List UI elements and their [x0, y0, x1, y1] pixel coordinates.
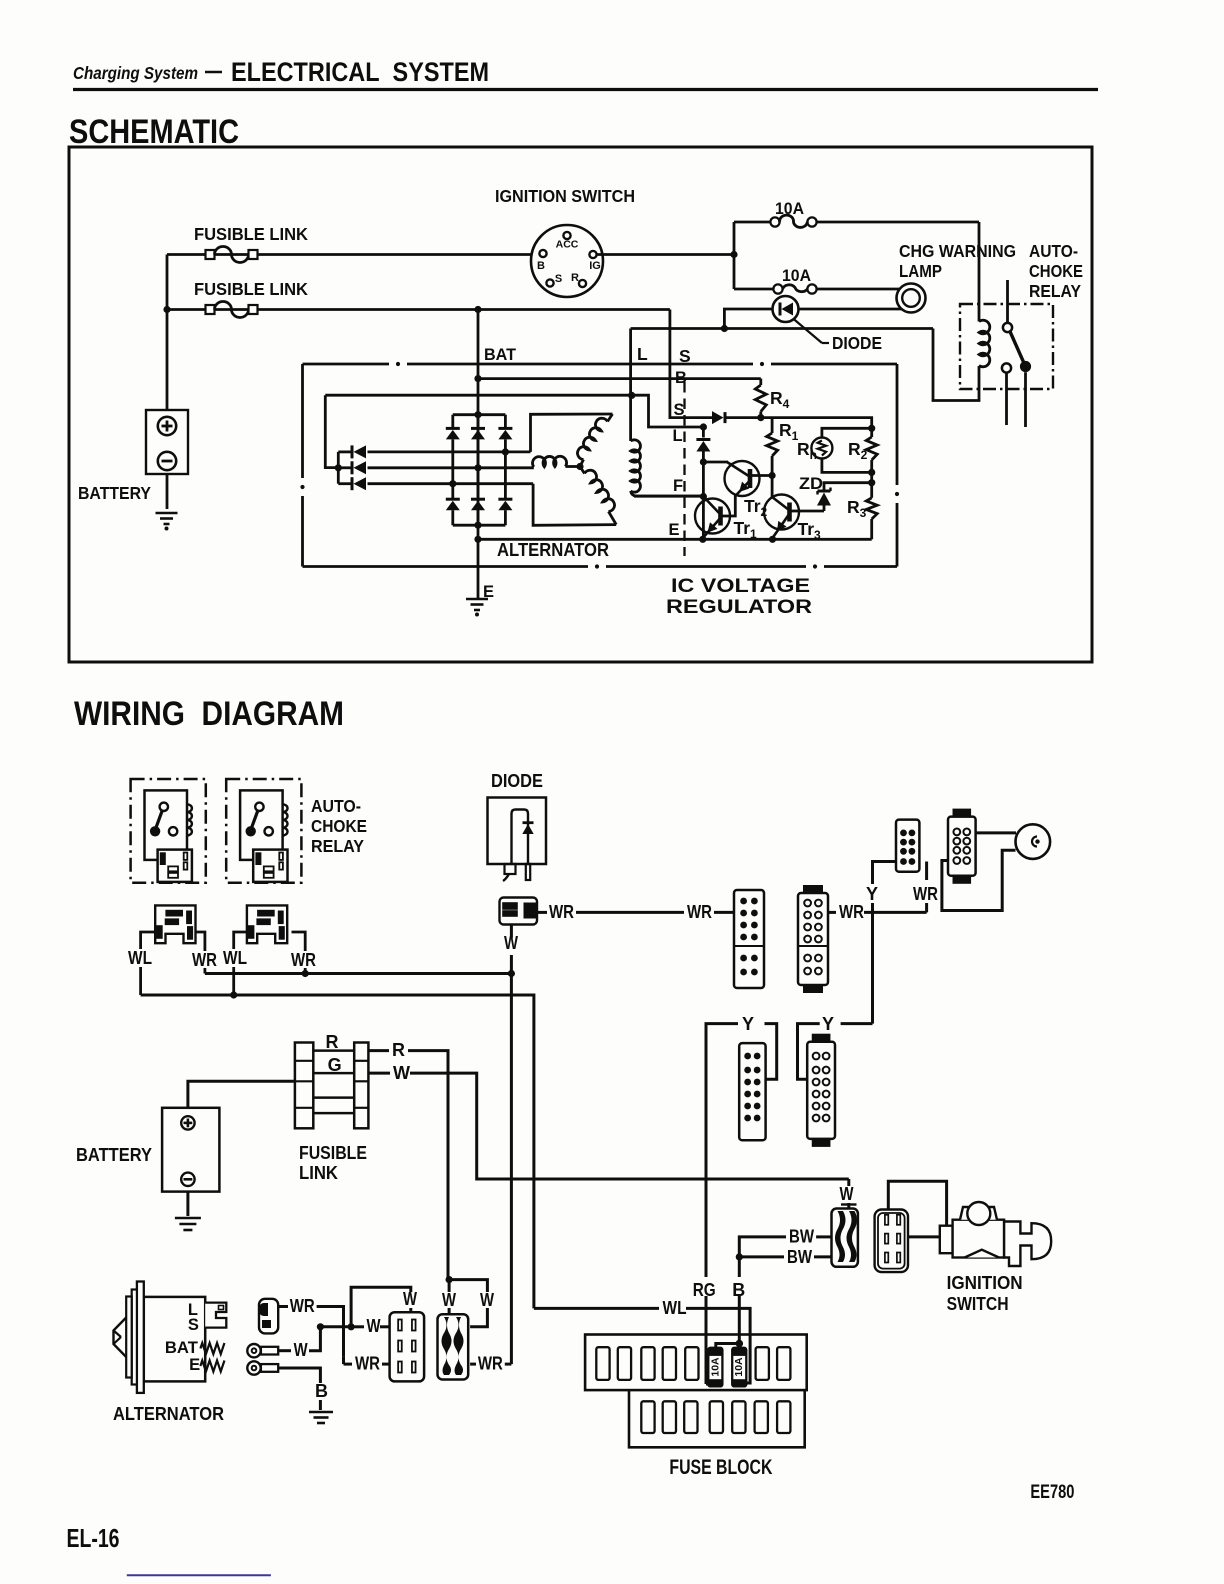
connector C: [896, 820, 919, 872]
node W join2: [348, 1323, 355, 1330]
svg-text:10A: 10A: [733, 1357, 745, 1377]
svg-text:IG: IG: [589, 260, 601, 272]
svg-text:WR: WR: [291, 950, 316, 970]
node L junction: [700, 423, 707, 430]
wire battery positive: [166, 255, 169, 411]
wire to fuse2: [734, 288, 773, 291]
wire W out: [368, 1072, 390, 1075]
ground alternator E: [466, 598, 488, 601]
phase line U: [368, 450, 531, 453]
wire W to 6pin: [351, 1325, 364, 1328]
node Tr2 base: [700, 458, 707, 465]
alternator body wiring: [144, 1297, 205, 1382]
zener ZD: [818, 490, 831, 493]
transistor Tr3: [764, 495, 799, 530]
svg-text:ZD: ZD: [799, 474, 823, 493]
ring terminal 2: [247, 1361, 260, 1374]
node bridge top: [474, 411, 481, 418]
svg-text:FUSE BLOCK: FUSE BLOCK: [669, 1455, 772, 1479]
connector 4pin: [438, 1314, 469, 1379]
svg-text:L: L: [637, 344, 648, 364]
connector B: [798, 893, 828, 985]
svg-text:FUSIBLE: FUSIBLE: [299, 1143, 367, 1163]
wire Tr2 emitter to Tr1 base: [721, 495, 735, 516]
resistor R2: [870, 428, 873, 437]
wire W main down: [510, 974, 513, 1061]
wire W node link: [320, 1325, 351, 1328]
node WL conn2: [230, 991, 237, 998]
wire W2 fusible feed: [167, 308, 670, 311]
wire ring2 B: [278, 1368, 320, 1383]
ground battery wiring: [175, 1217, 201, 1220]
svg-text:LAMP: LAMP: [899, 261, 942, 281]
wire diode left: [724, 309, 772, 329]
bridge diode column 3: [504, 415, 507, 429]
svg-text:WL: WL: [663, 1298, 687, 1318]
svg-text:WR: WR: [549, 902, 574, 922]
svg-text:B: B: [315, 1381, 328, 1401]
diode D1: [773, 296, 799, 322]
bridge diode column 2: [477, 415, 480, 429]
connector Y2: [807, 1042, 835, 1139]
wire R out: [368, 1049, 389, 1052]
lamp bulb: [1016, 824, 1051, 859]
node stator Y center: [576, 463, 583, 470]
wire conn1 WR leg: [196, 932, 205, 951]
wire WL bus: [141, 995, 534, 1060]
node phase U: [502, 448, 509, 455]
relay box K1: [960, 304, 1053, 389]
wire battery negative: [166, 474, 169, 509]
wire W into 4pin left: [448, 1280, 451, 1292]
alternator spring E: [200, 1361, 224, 1372]
svg-text:BW: BW: [789, 1227, 814, 1247]
wire conn1 WL leg: [141, 932, 156, 949]
wire WL down: [532, 1060, 535, 1308]
wire fuse2 to lamp: [817, 288, 900, 291]
phase line W: [368, 482, 534, 485]
relay contact moving: [1020, 361, 1031, 372]
wire WR bus: [205, 972, 512, 975]
svg-text:WR: WR: [687, 902, 712, 922]
svg-text:IC VOLTAGE: IC VOLTAGE: [671, 576, 810, 597]
wire R2-R3 link: [870, 472, 873, 497]
wire ZD top: [824, 483, 872, 490]
svg-text:B: B: [732, 1280, 745, 1300]
wire Y1 link: [765, 1024, 777, 1080]
header rule: [73, 88, 1098, 91]
svg-text:10A: 10A: [709, 1357, 721, 1377]
svg-text:SWITCH: SWITCH: [947, 1294, 1009, 1314]
diode box wiring: [488, 798, 547, 865]
wire ign W loop: [888, 1181, 946, 1226]
svg-text:B: B: [675, 369, 687, 387]
svg-text:IGNITION SWITCH: IGNITION SWITCH: [495, 186, 635, 206]
wire L branch to F: [702, 462, 705, 497]
node E-BAT: [474, 536, 481, 543]
svg-text:E: E: [483, 583, 494, 601]
svg-text:W: W: [504, 933, 518, 953]
svg-text:REGULATOR: REGULATOR: [666, 597, 812, 618]
wire WR top stub: [278, 1305, 288, 1308]
wire WR to connA: [576, 911, 684, 914]
wire Y2 link: [798, 1024, 820, 1080]
svg-text:10A: 10A: [782, 267, 811, 285]
wire W1 fusible feed: [167, 253, 540, 256]
rotor coil: [631, 440, 641, 492]
wire WR lower stub: [342, 1357, 345, 1364]
node W join1: [317, 1323, 324, 1330]
connector D: [948, 817, 976, 876]
node R2 top: [868, 425, 875, 432]
fusible link FL2: [206, 305, 215, 314]
svg-text:WR: WR: [839, 902, 864, 922]
fuse F1 10A: [770, 217, 779, 226]
fuse slot upper 1: [596, 1347, 609, 1380]
wire fuse1 to relay coil: [817, 221, 979, 224]
svg-text:RG: RG: [693, 1280, 716, 1300]
wire F to E: [702, 497, 705, 540]
connector relay1: [155, 905, 195, 943]
svg-text:W: W: [480, 1290, 494, 1310]
stator phase U path: [531, 414, 613, 452]
fuse slot lower 6: [755, 1401, 768, 1433]
wire diode WR stub: [538, 911, 548, 914]
svg-text:RELAY: RELAY: [1029, 281, 1081, 301]
ignition switch SW1: [531, 225, 603, 297]
wire WR to W vertical: [505, 1363, 512, 1366]
wire relay coil feed: [978, 222, 981, 322]
wire inner top to L-diode: [632, 395, 704, 427]
battery B1: [146, 410, 188, 474]
wire W over top: [351, 1287, 411, 1327]
fuse slot lower 4: [710, 1401, 723, 1433]
svg-text:W: W: [442, 1290, 456, 1310]
svg-text:R: R: [326, 1032, 339, 1052]
node phase V: [474, 464, 481, 471]
stator coil U: [608, 414, 613, 422]
connector Y1: [739, 1043, 765, 1140]
fuse slot upper 4: [663, 1347, 676, 1380]
wire relay coil return: [933, 329, 979, 401]
svg-text:IGNITION: IGNITION: [947, 1273, 1023, 1293]
stator phase W path: [533, 484, 616, 526]
inner wire left edge: [325, 395, 336, 467]
wire fuse1 jumper: [716, 1344, 740, 1348]
fuse slot lower 7: [777, 1401, 790, 1433]
node W2-battery junction: [163, 306, 170, 313]
wire BW2: [739, 1255, 784, 1258]
svg-text:W: W: [367, 1316, 381, 1336]
svg-text:BATTERY: BATTERY: [78, 483, 151, 503]
svg-text:W: W: [294, 1340, 308, 1360]
trio diode 3: [338, 482, 352, 485]
wire Tr2 collector: [751, 474, 773, 477]
relay K2 auto-choke: [131, 779, 206, 883]
wire conn2 WL leg: [234, 932, 247, 949]
relay K3 auto-choke: [226, 779, 301, 883]
connector 6pin: [390, 1312, 425, 1381]
diode DL: [696, 438, 710, 441]
svg-text:ELECTRICAL SYSTEM: ELECTRICAL SYSTEM: [231, 57, 489, 87]
wire battery ground: [186, 1192, 189, 1216]
svg-text:S: S: [679, 346, 691, 366]
leader diode label: [793, 319, 822, 344]
wire L down: [629, 329, 632, 442]
stator coil W: [609, 512, 617, 525]
svg-text:EE780: EE780: [1030, 1482, 1074, 1503]
node R1 bottom: [769, 472, 776, 479]
wire to fuse1: [734, 221, 770, 224]
svg-text:Y: Y: [742, 1014, 754, 1034]
node E-Tr3: [769, 536, 776, 543]
svg-text:G: G: [328, 1055, 342, 1075]
svg-text:E: E: [669, 521, 680, 539]
svg-text:WR: WR: [192, 950, 217, 970]
header dash: [205, 71, 222, 74]
fuse F2 10A: [773, 284, 782, 293]
wire WR top path: [317, 1307, 344, 1357]
fuse block outline: [585, 1335, 807, 1391]
wire R1 to Tr3: [771, 476, 774, 498]
svg-text:WIRING DIAGRAM: WIRING DIAGRAM: [74, 695, 344, 733]
connector BW: [832, 1209, 858, 1267]
diode pin right: [526, 864, 530, 880]
svg-text:WL: WL: [128, 948, 152, 968]
wire S-diode to R4: [727, 416, 761, 419]
transistor Tr1: [695, 499, 730, 534]
svg-text:AUTO-: AUTO-: [1029, 241, 1078, 261]
fuse 10A left: [708, 1348, 722, 1387]
svg-text:BAT: BAT: [484, 346, 516, 364]
node BAT-B: [474, 375, 481, 382]
wire B line: [478, 377, 761, 380]
node bridge bottom: [474, 522, 481, 529]
wire BW1: [739, 1237, 786, 1257]
svg-text:10A: 10A: [775, 200, 804, 218]
lamp CHG warning: [897, 284, 926, 313]
node W-WR junction: [508, 970, 515, 977]
fuse slot upper 5: [685, 1347, 698, 1380]
wire battery to fusible: [188, 1081, 295, 1108]
wire BAT main: [477, 310, 480, 601]
wire Y2 from above: [841, 1022, 873, 1025]
wire B fuse: [738, 1260, 741, 1277]
wire W into 4pin right: [449, 1280, 487, 1292]
phase line V: [368, 466, 534, 469]
resistor R3: [866, 498, 877, 519]
wire RG: [705, 1179, 708, 1277]
svg-text:SCHEMATIC: SCHEMATIC: [69, 113, 239, 151]
plug connector W: [259, 1299, 278, 1334]
fuse slot upper 7: [777, 1347, 790, 1380]
ignition switch wiring: [940, 1226, 953, 1254]
wire connD left: [942, 850, 1016, 910]
svg-text:W: W: [403, 1289, 417, 1309]
alternator spring BAT: [200, 1343, 224, 1354]
fuse 10A right: [732, 1348, 746, 1387]
svg-text:R: R: [392, 1040, 405, 1060]
relay contact NO: [1002, 363, 1011, 372]
diode pin left: [505, 864, 516, 874]
resistor R1: [771, 418, 774, 433]
relay wire contact b: [1024, 372, 1027, 427]
svg-text:ALTERNATOR: ALTERNATOR: [497, 539, 609, 560]
node BAT-W2: [474, 306, 481, 313]
node fuse branch: [730, 251, 737, 258]
wire ring1 W b: [309, 1327, 320, 1351]
wire WR into 6pin: [382, 1363, 390, 1366]
ground battery: [156, 512, 178, 515]
wire WL to fuse: [686, 1308, 750, 1383]
diode element: [512, 810, 529, 865]
svg-text:RELAY: RELAY: [311, 836, 364, 856]
wire conn2 WR leg: [292, 932, 306, 951]
wire ring1 W: [278, 1349, 291, 1352]
svg-text:WR: WR: [913, 884, 938, 904]
node WR conn2: [302, 970, 309, 977]
svg-text:Y: Y: [866, 884, 878, 904]
fuse slot upper 6: [756, 1347, 769, 1380]
wire E rail: [478, 538, 872, 541]
node ZD line: [868, 479, 875, 486]
relay coil K1: [979, 320, 990, 367]
node R4 bottom: [757, 414, 764, 421]
node diode junction: [721, 325, 728, 332]
svg-text:LINK: LINK: [299, 1163, 338, 1183]
diode DS: [712, 411, 724, 424]
svg-text:B: B: [537, 260, 545, 272]
ground B wire: [309, 1411, 333, 1414]
trio diode 1: [338, 450, 352, 453]
schematic frame: [69, 147, 1092, 662]
diode connector: [500, 898, 538, 925]
svg-text:WL: WL: [223, 948, 247, 968]
svg-text:S: S: [674, 401, 685, 419]
wire WR connB to C: [828, 911, 836, 914]
svg-text:AUTO-: AUTO-: [311, 796, 361, 816]
wire Rh top: [822, 428, 872, 437]
wire Tr3 base out: [790, 510, 799, 513]
transistor Tr2: [725, 461, 760, 496]
inner wire top: [325, 394, 631, 397]
wire base Tr2: [703, 461, 728, 464]
node F junction: [700, 493, 707, 500]
svg-text:W: W: [393, 1063, 410, 1083]
wire L junction down: [702, 427, 705, 438]
svg-text:CHOKE: CHOKE: [311, 816, 367, 836]
svg-text:ACC: ACC: [556, 239, 579, 251]
fuse slot upper 3: [641, 1347, 654, 1380]
ring terminal 1: [247, 1344, 260, 1357]
svg-text:WR: WR: [478, 1354, 503, 1374]
battery wiring: [162, 1108, 219, 1192]
wire W down from diode conn: [510, 925, 513, 939]
relay wire contact a: [1005, 373, 1008, 425]
fuse slot upper 2: [618, 1347, 631, 1380]
wire ign conn to switch: [908, 1235, 940, 1238]
svg-text:BATTERY: BATTERY: [76, 1145, 152, 1165]
bridge diode column 1: [451, 415, 454, 429]
svg-text:W: W: [840, 1184, 854, 1204]
svg-text:BAT: BAT: [165, 1339, 198, 1357]
svg-text:Charging System: Charging System: [73, 63, 198, 83]
fuse slot lower 5: [732, 1401, 745, 1433]
svg-text:WR: WR: [355, 1354, 380, 1374]
artifact blue line: [127, 1574, 271, 1576]
wire Y1 feed up: [706, 1024, 738, 1179]
svg-text:S: S: [188, 1316, 199, 1334]
wire ZD to Tr3: [799, 510, 824, 513]
fuse slot lower 2: [663, 1401, 676, 1433]
connector ign: [875, 1210, 908, 1273]
svg-text:FUSIBLE LINK: FUSIBLE LINK: [194, 279, 308, 299]
wire diode to lamp: [799, 308, 902, 311]
node E-Tr1: [699, 536, 706, 543]
svg-text:WR: WR: [290, 1296, 315, 1316]
node R-W top: [446, 1276, 453, 1283]
relay switch arm: [1010, 332, 1024, 363]
connector A: [734, 890, 764, 988]
trio diode 2: [338, 466, 352, 469]
node phase W: [449, 480, 456, 487]
wire Y from connC: [873, 862, 897, 885]
svg-text:DIODE: DIODE: [491, 771, 543, 791]
relay contact common: [1003, 323, 1012, 332]
alternator plug: [205, 1303, 226, 1328]
svg-text:Y: Y: [822, 1014, 834, 1034]
node trio: [335, 464, 342, 471]
svg-text:L: L: [673, 427, 683, 445]
svg-text:F: F: [673, 477, 683, 495]
node L-inner-top: [628, 392, 635, 399]
svg-text:EL-16: EL-16: [67, 1523, 120, 1553]
svg-text:ALTERNATOR: ALTERNATOR: [113, 1403, 224, 1424]
thermistor Rh: [811, 438, 832, 459]
svg-text:CHG WARNING: CHG WARNING: [899, 241, 1016, 261]
bridge top rail: [453, 413, 506, 416]
stator coil V: [533, 456, 567, 467]
node BW junction: [736, 1253, 743, 1260]
wire W long corner: [847, 1179, 850, 1186]
wire Rh bottom: [822, 459, 872, 473]
wire F line: [634, 495, 703, 498]
svg-text:BW: BW: [787, 1247, 812, 1267]
connector relay2: [247, 905, 287, 943]
fusible link FL1: [206, 250, 215, 259]
wire connD right: [976, 831, 1016, 834]
svg-text:DIODE: DIODE: [832, 333, 882, 353]
svg-text:FUSIBLE LINK: FUSIBLE LINK: [194, 224, 308, 244]
wire WR up to connC: [925, 862, 928, 881]
svg-text:E: E: [189, 1356, 200, 1374]
wire fuse branch vertical: [733, 222, 736, 289]
wire IG to fuse junction: [597, 253, 735, 256]
node R2 bottom: [868, 469, 875, 476]
relay switch stub: [1006, 280, 1009, 323]
svg-text:R: R: [571, 272, 579, 284]
wire L-line to relay: [631, 327, 933, 330]
wire S: [670, 310, 712, 418]
wire WR out 4pin: [470, 1363, 476, 1366]
node B fuse top: [736, 1340, 744, 1348]
divider alternator-regulator: [683, 382, 685, 556]
svg-text:CHOKE: CHOKE: [1029, 261, 1083, 281]
fuse slot lower 3: [684, 1401, 697, 1433]
fuse slot lower 1: [641, 1401, 654, 1433]
svg-text:S: S: [555, 273, 562, 285]
alternator-regulator box: [303, 363, 898, 366]
